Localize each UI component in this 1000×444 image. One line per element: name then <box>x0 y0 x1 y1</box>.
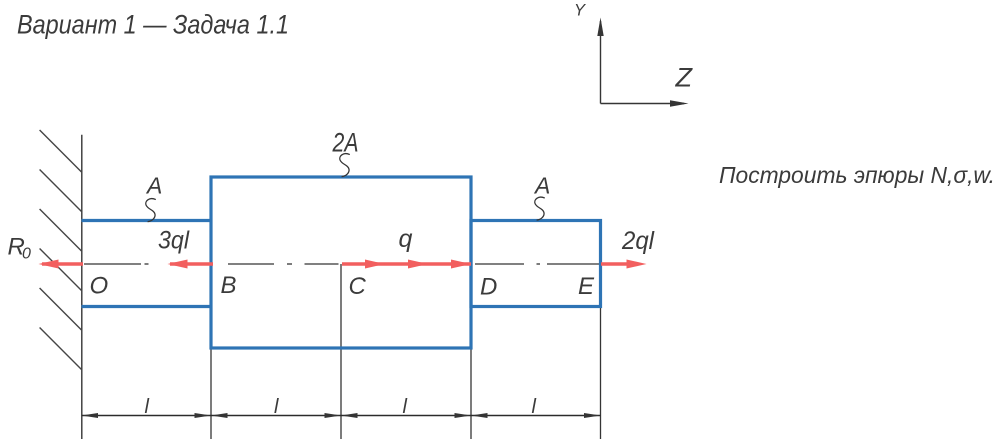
svg-text:l: l <box>532 396 537 418</box>
svg-text:2ql: 2ql <box>621 227 655 255</box>
svg-text:E: E <box>578 273 595 300</box>
svg-text:A: A <box>533 173 550 199</box>
svg-text:2A: 2A <box>332 128 359 158</box>
svg-text:l: l <box>274 396 279 418</box>
svg-text:0: 0 <box>22 246 31 263</box>
svg-text:Построить эпюры N,σ,w.: Построить эпюры N,σ,w. <box>719 162 995 188</box>
svg-text:l: l <box>145 396 150 418</box>
svg-text:q: q <box>399 225 413 253</box>
svg-text:Вариант 1 — Задача 1.1: Вариант 1 — Задача 1.1 <box>17 10 289 40</box>
svg-text:O: O <box>90 273 109 300</box>
svg-text:B: B <box>221 272 237 299</box>
svg-text:l: l <box>403 396 408 418</box>
svg-text:Z: Z <box>675 62 694 92</box>
svg-text:D: D <box>480 274 497 301</box>
svg-text:A: A <box>145 173 162 199</box>
svg-text:Y: Y <box>574 2 586 20</box>
svg-text:3ql: 3ql <box>158 227 190 255</box>
svg-text:C: C <box>349 273 367 300</box>
